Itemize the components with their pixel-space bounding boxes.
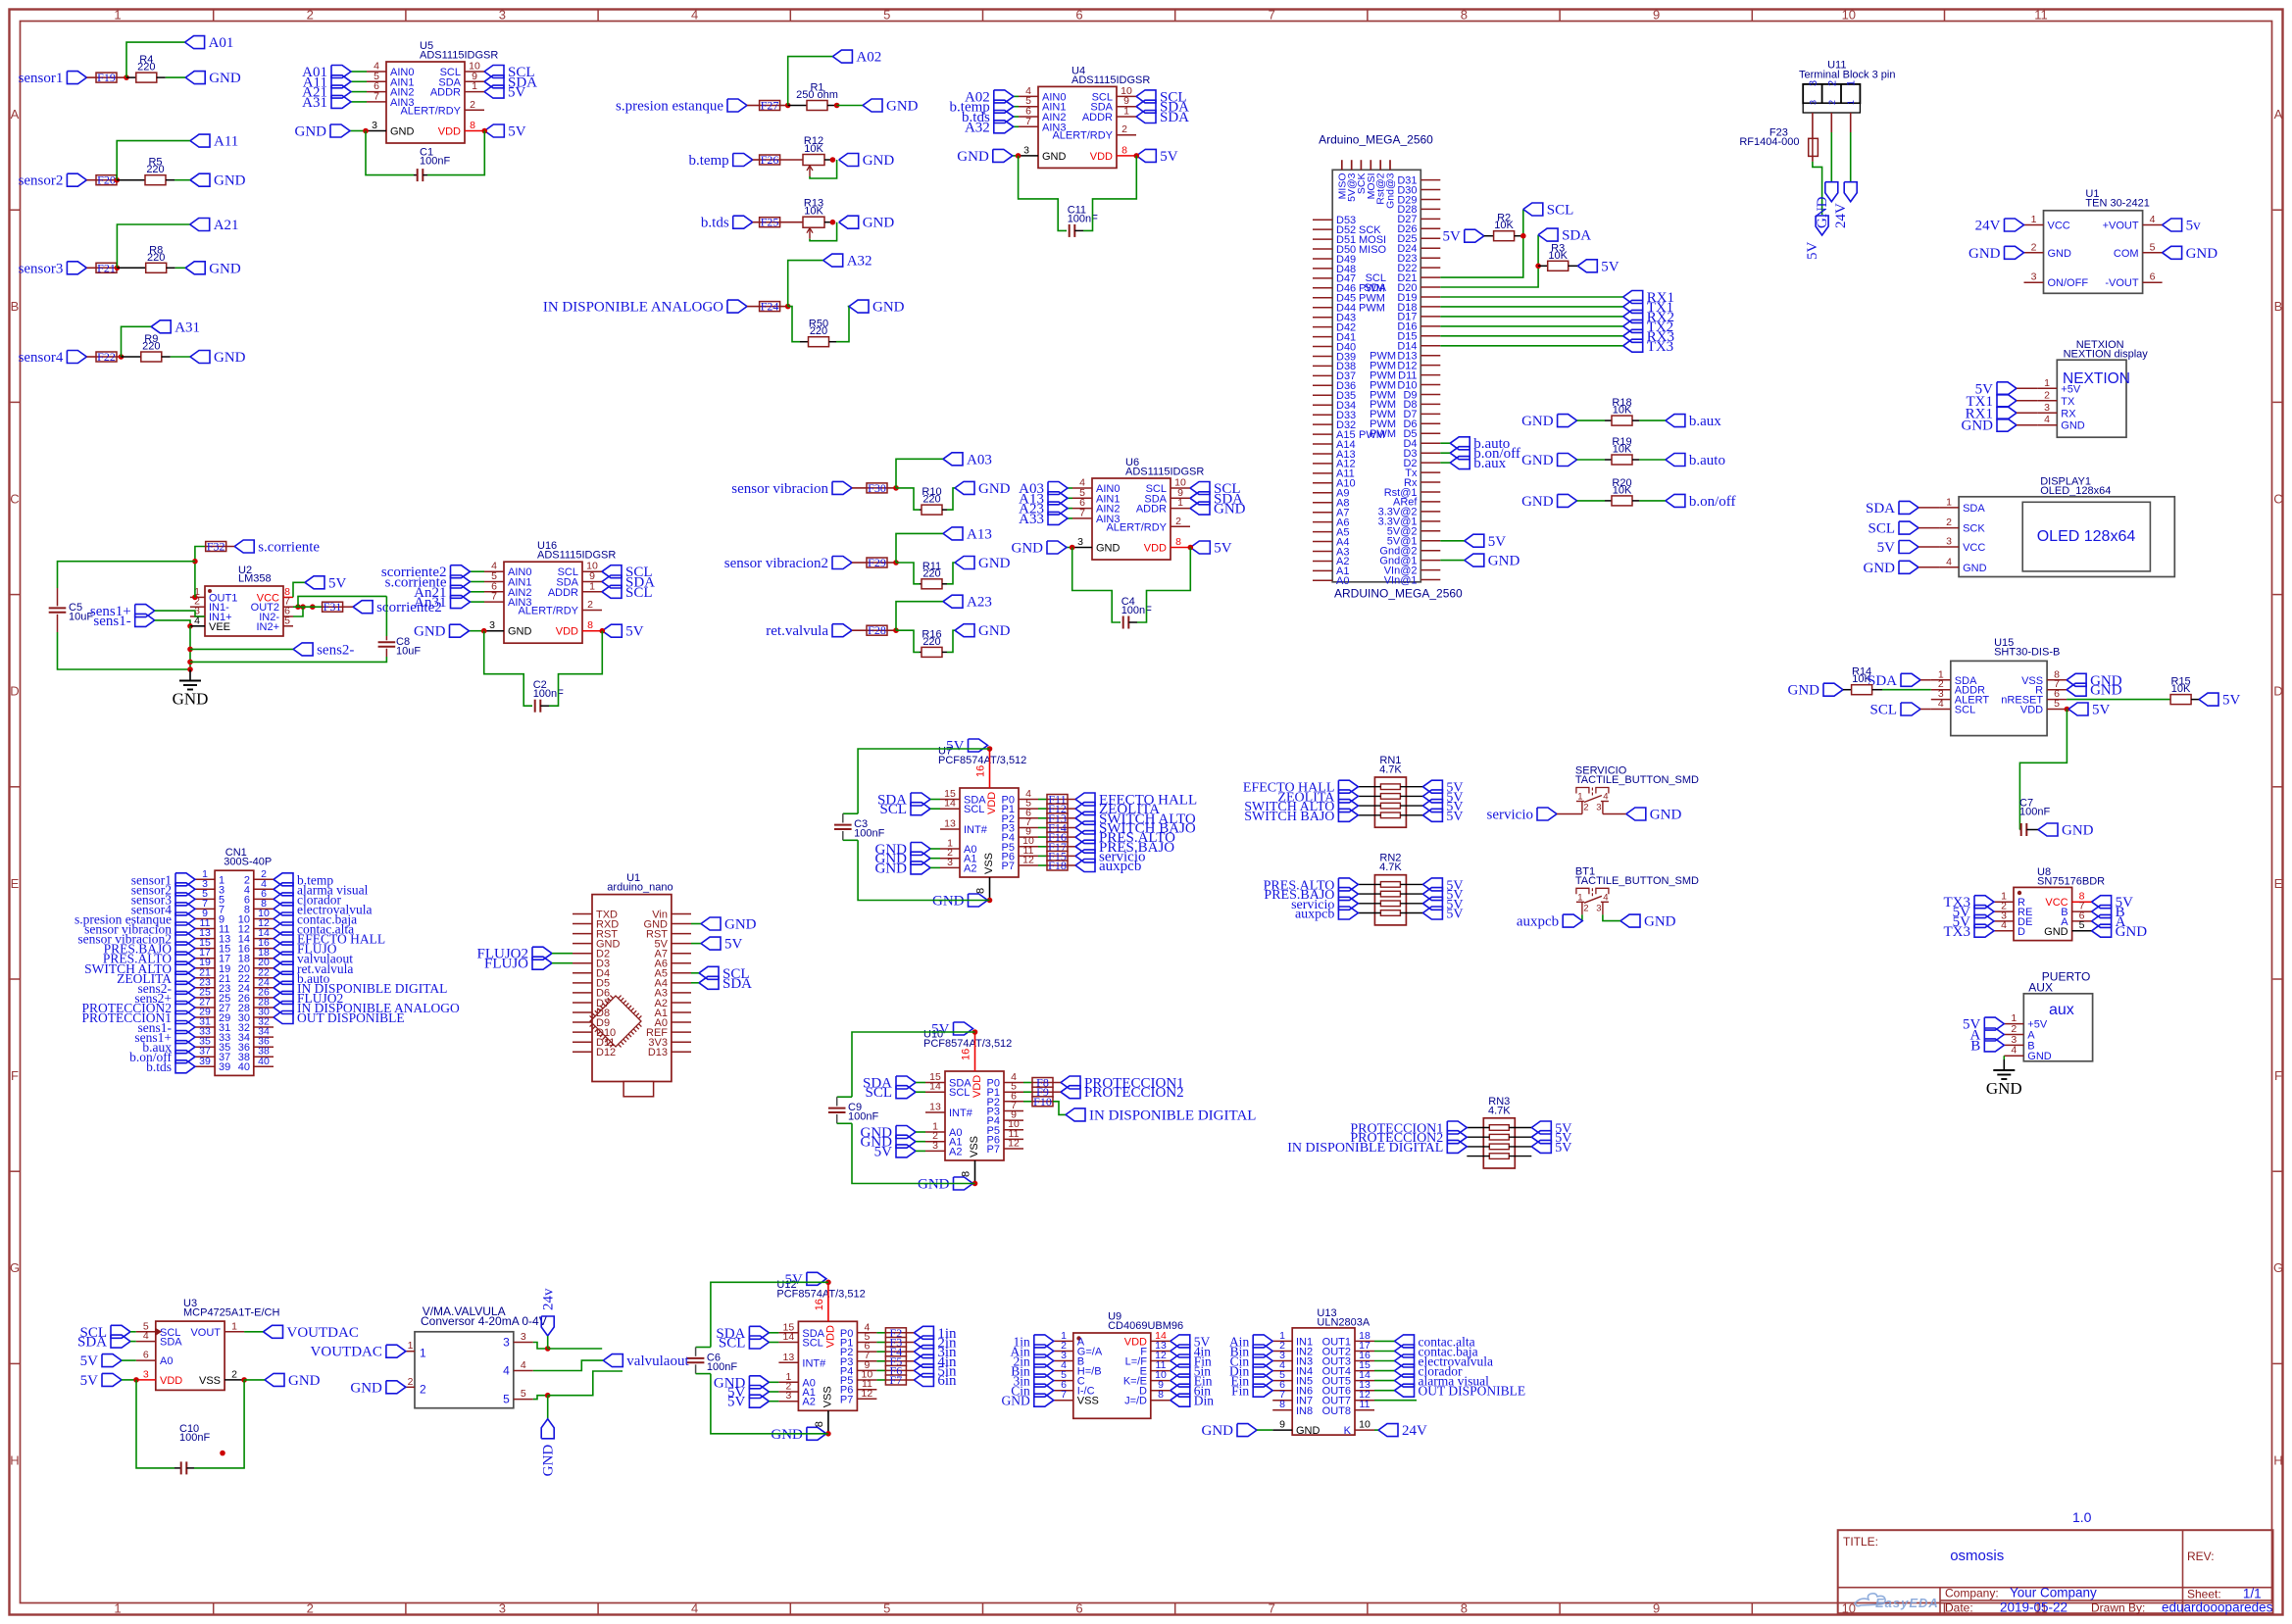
- svg-text:5V: 5V: [1488, 534, 1507, 550]
- svg-text:-VOUT: -VOUT: [2105, 277, 2139, 289]
- fuse F6: [876, 1363, 907, 1377]
- svg-text:F20: F20: [97, 173, 116, 187]
- net port 5V (RN3): [1531, 1140, 1571, 1156]
- net port SCL: [719, 1336, 779, 1352]
- svg-text:8: 8: [1461, 1601, 1468, 1616]
- svg-text:2: 2: [231, 1368, 237, 1380]
- fuse F13: [1038, 812, 1069, 825]
- svg-text:GND: GND: [1815, 196, 1830, 228]
- svg-text:MCP4725A1T-E/CH: MCP4725A1T-E/CH: [183, 1306, 279, 1318]
- net port 24V (U13 K): [1374, 1423, 1427, 1439]
- net port SDA (OLED): [1866, 501, 1939, 517]
- fuse F3: [876, 1336, 907, 1350]
- svg-text:RF1404-000: RF1404-000: [1739, 136, 1799, 148]
- svg-text:1: 1: [1846, 100, 1856, 105]
- CN1 pin 21 ZEOLITA: [117, 966, 230, 986]
- net port VOUTDAC (valvula in): [311, 1345, 406, 1360]
- resistor R14 10K: [1788, 666, 1931, 699]
- svg-text:5V: 5V: [874, 1144, 893, 1159]
- net port 5V (U15 VDD): [2065, 703, 2111, 718]
- svg-text:16: 16: [961, 1049, 972, 1060]
- svg-text:10: 10: [1842, 8, 1856, 23]
- net port A01: [302, 65, 367, 80]
- svg-text:8: 8: [1279, 1399, 1285, 1410]
- svg-text:auxpcb: auxpcb: [1295, 908, 1334, 922]
- net port A02: [832, 50, 881, 66]
- CN1 pin 5 sensor3: [131, 888, 224, 908]
- junction: [893, 627, 899, 633]
- net port electrovalvula (U13 OUT3): [1374, 1354, 1493, 1369]
- fuse F25: [753, 216, 803, 229]
- net port GND: [190, 173, 246, 189]
- net port A01: [185, 35, 234, 51]
- svg-text:4.7K: 4.7K: [1488, 1105, 1511, 1116]
- net port B (U8 right): [2092, 905, 2125, 920]
- net port Bin (U9 left): [1011, 1364, 1054, 1379]
- net port A21: [302, 85, 367, 101]
- svg-text:5: 5: [284, 615, 290, 626]
- net port PRES.ALTO: [1068, 830, 1175, 846]
- capacitor C1: [366, 131, 484, 182]
- CN1 pin 27 PROTECCION2: [81, 997, 230, 1016]
- svg-text:SDA: SDA: [77, 1335, 107, 1351]
- net port RX2: [1440, 310, 1674, 325]
- fuse F17: [1038, 840, 1069, 854]
- IC U3 MCP4725A1T-E/CH: [136, 1298, 280, 1391]
- svg-text:A21: A21: [214, 218, 239, 233]
- CN1 pin 30 OUT DISPONIBLE: [238, 1007, 405, 1026]
- CN1 pin 13 sensor vibracion2: [77, 927, 230, 947]
- svg-text:VCC: VCC: [2048, 221, 2070, 232]
- net port 2in: [906, 1336, 957, 1352]
- net port SDA: [602, 575, 655, 591]
- wire to A32: [788, 261, 823, 307]
- svg-text:F24: F24: [761, 300, 779, 314]
- svg-text:4: 4: [1938, 698, 1944, 710]
- net port sensor2: [19, 173, 87, 189]
- svg-text:SHT30-DIS-B: SHT30-DIS-B: [1994, 647, 2060, 659]
- net port PROTECCION2: [1053, 1085, 1184, 1101]
- net port GND (Gnd@1): [1440, 554, 1520, 569]
- fuse F16: [1038, 830, 1069, 844]
- fuse F12: [1038, 802, 1069, 815]
- net port A31: [302, 95, 367, 111]
- svg-text:ALERT/RDY: ALERT/RDY: [1052, 130, 1113, 142]
- net port GND (A1): [875, 852, 941, 867]
- svg-text:A01: A01: [209, 35, 234, 51]
- svg-text:A: A: [2274, 107, 2283, 122]
- net port GND (SERVICIO): [1603, 808, 1682, 823]
- svg-text:sensor3: sensor3: [19, 261, 64, 276]
- CN1 pin 10 contac.baja: [238, 908, 357, 927]
- wire to GND: [166, 76, 185, 78]
- svg-text:8: 8: [1158, 1389, 1164, 1401]
- svg-text:5V: 5V: [727, 1395, 746, 1410]
- CN1 pin 28 IN DISPONIBLE ANALOGO: [238, 997, 460, 1016]
- svg-text:ULN2803A: ULN2803A: [1317, 1317, 1370, 1329]
- svg-text:2: 2: [1583, 903, 1588, 913]
- svg-text:1: 1: [114, 8, 121, 23]
- svg-text:VIn@1: VIn@1: [1384, 574, 1418, 586]
- svg-text:GND: GND: [1521, 414, 1554, 429]
- svg-text:F22: F22: [97, 350, 116, 364]
- svg-text:A31: A31: [174, 320, 200, 335]
- svg-text:39: 39: [199, 1056, 211, 1067]
- net port GND: [185, 71, 241, 86]
- resistor R18 10K: [1521, 397, 1721, 429]
- net port GND (U9 left): [1002, 1394, 1054, 1408]
- fuse F7: [876, 1373, 907, 1387]
- net port b.temp: [950, 100, 1019, 116]
- svg-text:4: 4: [1603, 792, 1608, 803]
- fuse F15: [1038, 849, 1069, 862]
- svg-text:IN DISPONIBLE ANALOGO: IN DISPONIBLE ANALOGO: [543, 300, 723, 316]
- svg-text:GND: GND: [724, 917, 757, 933]
- svg-text:5V: 5V: [1446, 908, 1463, 922]
- svg-text:GND: GND: [1042, 151, 1067, 163]
- net port 24V (terminal pin1): [1833, 113, 1857, 228]
- svg-text:4: 4: [2044, 414, 2050, 425]
- svg-text:ADDR: ADDR: [1136, 504, 1167, 516]
- svg-text:3: 3: [499, 1601, 506, 1616]
- svg-text:SDA: SDA: [1562, 228, 1591, 244]
- svg-text:OLED 128x64: OLED 128x64: [2037, 528, 2136, 545]
- svg-text:A: A: [11, 107, 20, 122]
- svg-text:SCL: SCL: [964, 804, 984, 815]
- svg-text:A2: A2: [802, 1397, 815, 1408]
- net port B (aux): [1970, 1038, 2004, 1054]
- svg-text:osmosis: osmosis: [1950, 1548, 2004, 1564]
- svg-text:SCL: SCL: [1547, 203, 1574, 219]
- svg-text:3: 3: [2044, 402, 2050, 414]
- net port 5V (RN2): [1422, 888, 1463, 904]
- svg-text:F28: F28: [868, 623, 886, 637]
- wire to GND: [174, 179, 190, 181]
- svg-text:PCF8574AT/3,512: PCF8574AT/3,512: [923, 1038, 1012, 1050]
- svg-text:1: 1: [1577, 792, 1582, 803]
- net port 5V (RN1): [1422, 800, 1463, 815]
- svg-text:b.aux: b.aux: [1473, 456, 1506, 471]
- svg-text:INT#: INT#: [802, 1357, 826, 1369]
- svg-text:P7: P7: [987, 1144, 1000, 1156]
- svg-text:K: K: [1344, 1425, 1352, 1437]
- svg-text:220: 220: [922, 567, 940, 579]
- svg-text:10K: 10K: [1613, 444, 1632, 456]
- svg-text:ADS1115IDGSR: ADS1115IDGSR: [420, 50, 498, 62]
- IC U9 CD4069UBM96: [1054, 1311, 1183, 1419]
- svg-text:SDA: SDA: [1866, 501, 1895, 517]
- net port A11: [303, 74, 367, 90]
- svg-text:VDD: VDD: [1090, 151, 1113, 163]
- svg-text:5: 5: [521, 1388, 526, 1400]
- wire D20 to SDA: [1440, 235, 1538, 287]
- svg-text:5V: 5V: [1160, 149, 1178, 165]
- svg-text:VDD: VDD: [438, 126, 461, 138]
- svg-text:arduino_nano: arduino_nano: [607, 881, 673, 893]
- svg-text:5V: 5V: [1805, 242, 1820, 261]
- net port GND (A1): [861, 1135, 926, 1151]
- svg-text:1: 1: [589, 580, 595, 592]
- net port SCL (OLED): [1868, 521, 1939, 537]
- svg-text:FLUJO: FLUJO: [484, 957, 528, 972]
- CN1 pin 20 ret.valvula: [238, 957, 354, 976]
- wire OUT7: [1374, 1400, 1417, 1402]
- svg-text:2: 2: [1121, 123, 1127, 135]
- svg-text:A02: A02: [856, 50, 881, 66]
- net port 4in (U9 right): [1171, 1345, 1212, 1359]
- svg-text:220: 220: [142, 341, 160, 353]
- IC U4 ADS1115IDGSR: [1019, 65, 1150, 168]
- net port s.corriente: [234, 540, 320, 556]
- fuse F23 RF1404-000: [1739, 113, 1818, 162]
- resistor R8: [117, 244, 174, 272]
- net port SCL: [602, 585, 653, 601]
- svg-text:100nF: 100nF: [1068, 213, 1098, 224]
- net port Ein (U9 right): [1171, 1374, 1213, 1389]
- net port IN DISPONIBLE DIGITAL: [1053, 1102, 1256, 1124]
- svg-text:1: 1: [1177, 497, 1183, 509]
- capacitor C7 100nF: [2019, 710, 2094, 839]
- svg-text:5V: 5V: [80, 1373, 99, 1389]
- svg-text:1: 1: [114, 1601, 121, 1616]
- svg-text:24V: 24V: [1402, 1423, 1427, 1439]
- svg-text:5V: 5V: [785, 1272, 804, 1288]
- net port 5V (nano): [691, 937, 743, 953]
- CN1 pin 39 b.tds: [146, 1056, 230, 1074]
- net port GND (TEN COM): [2163, 246, 2218, 262]
- net port 5V (U3 VDD): [80, 1373, 139, 1389]
- net port A11: [190, 134, 238, 150]
- svg-text:NEXTION display: NEXTION display: [2064, 348, 2149, 360]
- svg-text:sensor1: sensor1: [19, 71, 64, 86]
- svg-text:250 ohm: 250 ohm: [796, 89, 838, 101]
- svg-text:3: 3: [1808, 80, 1819, 86]
- net port 5V (U8 left): [1953, 914, 1994, 930]
- svg-text:SDA: SDA: [722, 976, 752, 992]
- net port 5V (RN1): [1422, 790, 1463, 806]
- svg-text:SWITCH BAJO: SWITCH BAJO: [1244, 810, 1334, 824]
- CN1 pin 11 sensor vibracion: [84, 917, 229, 937]
- svg-text:5V: 5V: [1446, 810, 1463, 824]
- svg-text:GND: GND: [1012, 541, 1044, 557]
- fuse F4: [876, 1345, 907, 1358]
- net port SDA: [863, 1076, 925, 1092]
- CN1 pin 18 valvulaout: [238, 947, 353, 966]
- net port PROTECCION2 (RN3): [1350, 1131, 1467, 1147]
- net port valvulaout: [533, 1353, 690, 1370]
- svg-text:GND: GND: [1986, 1079, 2022, 1098]
- net port 5V (RN3): [1531, 1131, 1571, 1147]
- net port GND (valvula): [350, 1380, 406, 1396]
- capacitor C11: [1019, 156, 1137, 237]
- resistor R11 220 loop: [896, 561, 955, 589]
- capacitor C6 100nF and rails: [687, 1282, 828, 1434]
- svg-text:SDA: SDA: [1963, 503, 1985, 515]
- net port GND (U15 VSS): [2067, 673, 2122, 689]
- potentiometer R13 10K: [803, 198, 830, 239]
- svg-text:MISO: MISO: [1359, 244, 1387, 256]
- svg-text:OUT DISPONIBLE: OUT DISPONIBLE: [1419, 1384, 1526, 1399]
- net port TX3 (U8 left): [1944, 924, 1995, 940]
- svg-text:Terminal Block 3 pin: Terminal Block 3 pin: [1799, 69, 1895, 80]
- svg-text:220: 220: [810, 325, 827, 337]
- EasyEDA logo: [1855, 1594, 1939, 1610]
- net port sens1+: [90, 604, 205, 619]
- net port GND (U13 pin9): [1202, 1423, 1273, 1439]
- capacitor C9 100nF and rails: [828, 1032, 975, 1184]
- svg-text:3: 3: [1808, 100, 1818, 105]
- svg-text:GND: GND: [508, 626, 532, 638]
- IC Arduino_MEGA_2560: [1313, 133, 1463, 601]
- svg-text:ret.valvula: ret.valvula: [766, 623, 828, 639]
- svg-text:auxpcb: auxpcb: [1517, 914, 1559, 930]
- net port b.tds: [962, 110, 1019, 125]
- svg-text:10K: 10K: [2171, 683, 2191, 695]
- fuse F9: [1023, 1085, 1054, 1099]
- svg-text:PCF8574AT/3,512: PCF8574AT/3,512: [776, 1288, 865, 1300]
- svg-text:F18: F18: [1048, 859, 1067, 872]
- svg-text:5v: 5v: [2186, 219, 2202, 234]
- net port PRES.BAJO: [1068, 840, 1174, 856]
- net port SDA: [877, 793, 940, 809]
- svg-text:2: 2: [1946, 517, 1952, 528]
- net port 5V (A2): [727, 1395, 778, 1410]
- svg-text:2: 2: [1826, 80, 1838, 86]
- svg-text:1: 1: [231, 1320, 237, 1332]
- svg-text:13: 13: [944, 818, 956, 830]
- resistor R3 10K pullup: [1535, 242, 1619, 274]
- svg-text:GND: GND: [390, 126, 415, 138]
- svg-text:A2: A2: [949, 1146, 962, 1157]
- resistor R15 10K: [2067, 676, 2240, 709]
- svg-text:1: 1: [1846, 80, 1858, 86]
- svg-text:IN DISPONIBLE DIGITAL: IN DISPONIBLE DIGITAL: [1287, 1141, 1443, 1156]
- svg-text:VSS: VSS: [822, 1386, 833, 1407]
- svg-text:GND: GND: [1002, 1394, 1030, 1408]
- wire to A21: [117, 224, 189, 268]
- net port 5V: [484, 85, 526, 101]
- svg-text:servicio: servicio: [1487, 808, 1533, 823]
- resistor network RN3 4.7K: [1467, 1096, 1531, 1168]
- svg-text:VSS: VSS: [983, 853, 995, 874]
- svg-text:ON/OFF: ON/OFF: [2048, 277, 2089, 289]
- net port PRES.BAJO (RN2): [1264, 888, 1358, 904]
- svg-text:F10: F10: [1033, 1095, 1052, 1108]
- svg-text:3: 3: [489, 619, 495, 631]
- svg-text:sensor2: sensor2: [19, 173, 64, 189]
- net port TX2: [1440, 320, 1673, 335]
- svg-text:10K: 10K: [1613, 405, 1632, 417]
- button SERVICIO TACTILE_BUTTON_SMD: [1575, 765, 1699, 814]
- net port s.corriente: [385, 575, 484, 591]
- svg-text:5V: 5V: [1601, 259, 1619, 274]
- net port GND (U15 R): [2067, 683, 2122, 699]
- svg-text:VCC: VCC: [1963, 542, 1985, 554]
- net port 5V (VDD): [931, 1022, 977, 1038]
- svg-text:9: 9: [1653, 8, 1660, 23]
- svg-text:D: D: [2018, 926, 2025, 938]
- svg-text:12: 12: [1022, 855, 1034, 866]
- net port 6in: [906, 1373, 957, 1389]
- svg-text:1: 1: [2031, 214, 2037, 225]
- svg-text:sensor vibracion: sensor vibracion: [731, 481, 828, 497]
- CN1 pin 29 PROTECCION1: [81, 1007, 230, 1026]
- net port A13: [943, 526, 992, 542]
- net port GND (U3 VSS): [241, 1373, 320, 1389]
- svg-text:ADDR: ADDR: [548, 587, 578, 599]
- CN1 pin 32 nc: [238, 1016, 274, 1035]
- svg-text:GND: GND: [541, 1445, 557, 1477]
- svg-text:100nF: 100nF: [420, 156, 450, 168]
- svg-text:OUT DISPONIBLE: OUT DISPONIBLE: [297, 1010, 405, 1025]
- svg-text:GND: GND: [414, 624, 446, 640]
- resistor network RN1 4.7K: [1358, 755, 1422, 827]
- CN1 pin 34 nc: [238, 1026, 274, 1045]
- svg-text:GND: GND: [863, 153, 895, 169]
- net port A03: [1019, 481, 1072, 497]
- svg-text:8: 8: [814, 1421, 825, 1427]
- svg-text:10K: 10K: [804, 206, 823, 218]
- svg-text:F19: F19: [97, 71, 116, 84]
- svg-text:10K: 10K: [1548, 250, 1568, 262]
- svg-text:VDD: VDD: [1144, 543, 1167, 555]
- net port 5V (U8 right): [2092, 895, 2134, 910]
- svg-text:GND: GND: [886, 99, 919, 115]
- capacitor C8 10uF: [190, 596, 421, 662]
- junction: [893, 560, 899, 566]
- svg-text:GND: GND: [1488, 554, 1520, 569]
- svg-text:GND: GND: [1296, 1425, 1320, 1437]
- net port SCL: [1190, 481, 1241, 497]
- svg-text:5V: 5V: [2092, 703, 2111, 718]
- svg-text:2: 2: [2044, 389, 2050, 401]
- net port FLUJO: [484, 957, 573, 972]
- resistor R2 10K pullup: [1442, 213, 1525, 245]
- net port 4in: [906, 1354, 957, 1370]
- net port scorriente2: [381, 565, 484, 580]
- net port GND (A0): [875, 842, 941, 858]
- net port A21: [190, 218, 239, 233]
- svg-text:A23: A23: [967, 595, 992, 611]
- fuse F26: [753, 153, 803, 167]
- fuse F31 scorriente2: [313, 600, 353, 614]
- svg-text:10: 10: [1359, 1419, 1370, 1431]
- net port 5V (VDD): [946, 739, 992, 755]
- net port GND: [955, 556, 1011, 571]
- net port SDA (U15): [1868, 673, 1931, 689]
- svg-text:TX3: TX3: [1647, 339, 1674, 355]
- resistor R5: [117, 157, 174, 185]
- svg-text:GND: GND: [978, 556, 1011, 571]
- svg-text:eduardoooparedes: eduardoooparedes: [2162, 1600, 2273, 1615]
- svg-text:100nF: 100nF: [179, 1432, 210, 1444]
- fuse F24: [747, 300, 788, 314]
- svg-text:P7: P7: [840, 1394, 853, 1405]
- net port 6in (U9 right): [1171, 1384, 1212, 1399]
- svg-text:5V: 5V: [508, 85, 526, 101]
- svg-text:SCL: SCL: [879, 802, 907, 817]
- svg-text:s.presion estanque: s.presion estanque: [616, 99, 723, 115]
- svg-text:GND: GND: [957, 149, 989, 165]
- CN1 pin 31 sens1-: [138, 1016, 231, 1036]
- CN1 pin 36 nc: [238, 1036, 274, 1055]
- svg-text:8: 8: [1461, 8, 1468, 23]
- net port Bin (U13 IN2): [1230, 1345, 1273, 1359]
- svg-text:220: 220: [147, 252, 165, 264]
- net port b.aux: [1440, 456, 1506, 471]
- svg-text:H: H: [10, 1452, 19, 1467]
- fuse F30: [852, 481, 896, 495]
